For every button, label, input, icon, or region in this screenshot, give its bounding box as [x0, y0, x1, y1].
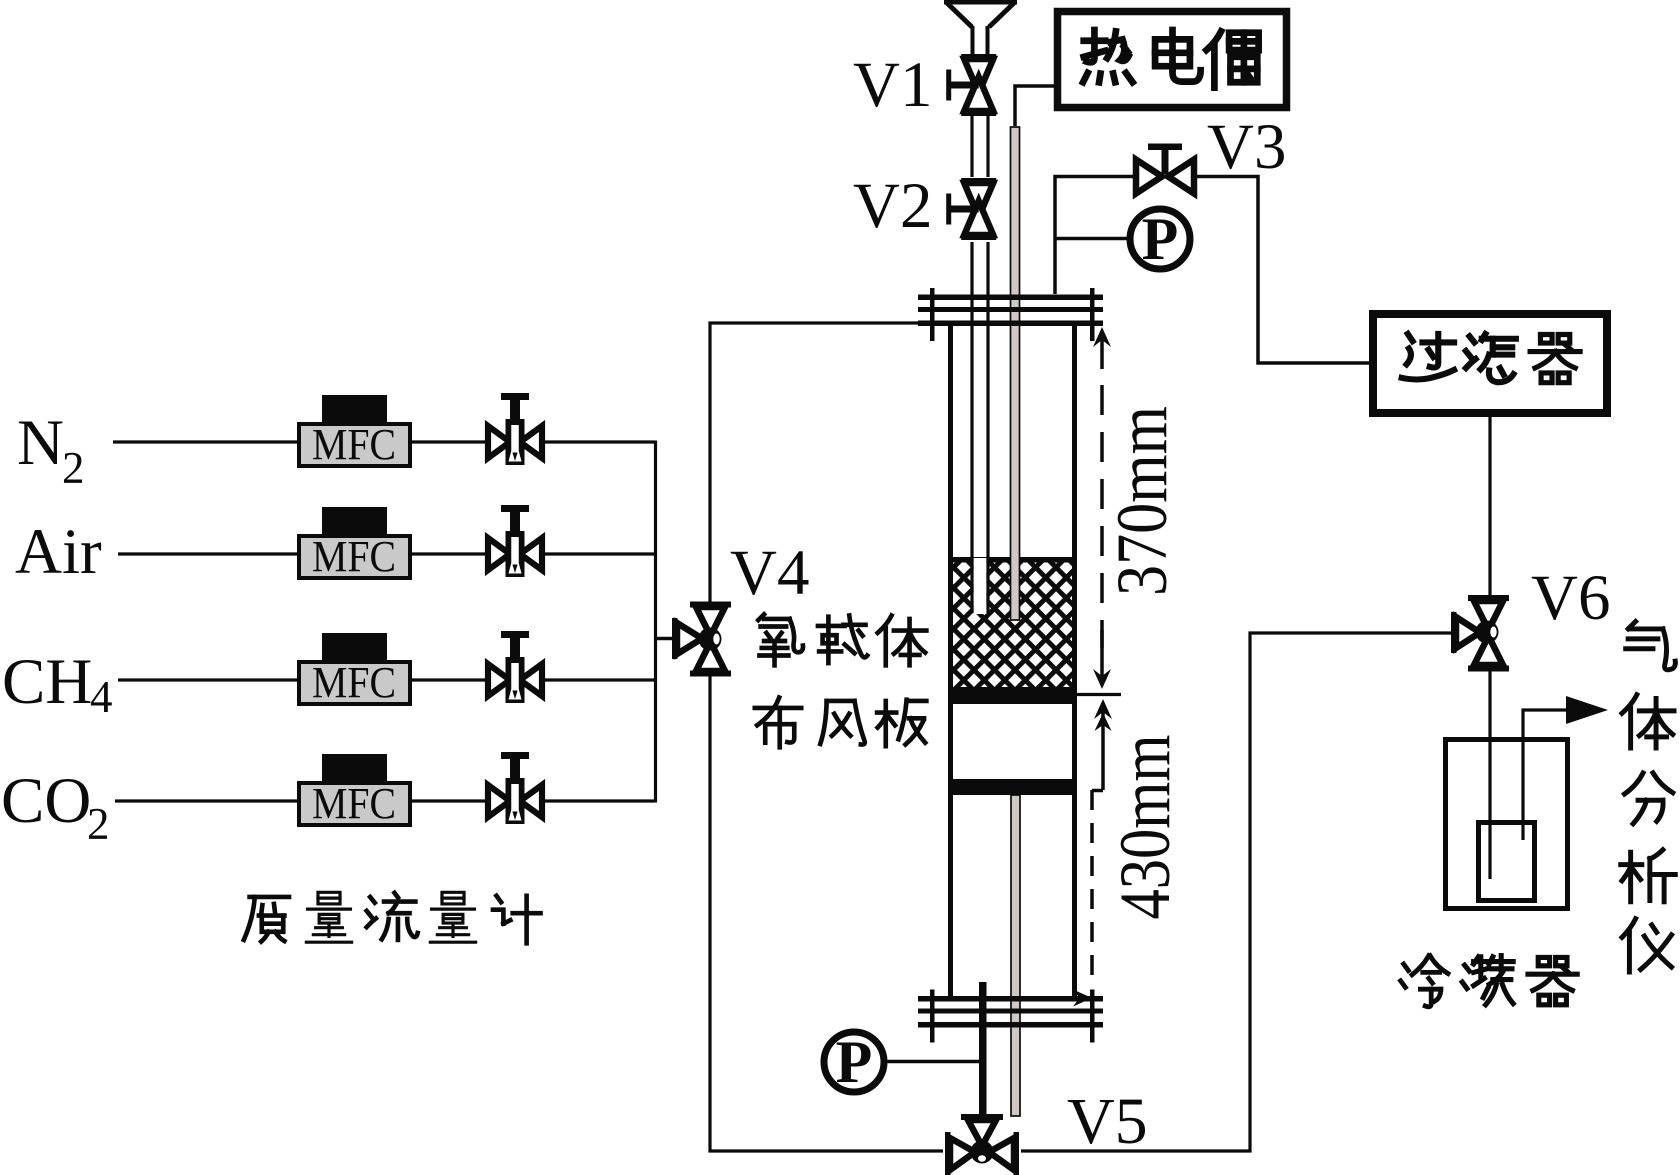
label CH4 — [2, 646, 113, 722]
dimension line 430mm — [1022, 699, 1112, 1007]
feed pipe inside reactor — [972, 242, 988, 614]
dimension line 370mm — [1093, 327, 1111, 689]
svg-text:MFC: MFC — [312, 532, 396, 581]
wire P bottom to drain tube — [884, 1060, 980, 1064]
svg-text:2: 2 — [87, 799, 110, 849]
wire N2 line — [113, 440, 655, 443]
svg-text:N: N — [17, 407, 64, 479]
wire tap to P gauge top — [1055, 237, 1127, 241]
svg-text:V5: V5 — [1067, 1085, 1148, 1158]
reactor wall left — [948, 326, 953, 996]
label CO2 — [1, 765, 110, 849]
MFC 2 (Air) — [299, 507, 410, 581]
thermocouple probe tube (lower) — [1011, 795, 1020, 1116]
valve V5 (3-way) — [945, 1114, 1019, 1175]
condenser outlet line with arrow — [1523, 696, 1608, 840]
condenser inner vessel — [1479, 820, 1535, 901]
thermocouple box 热电偶 — [1058, 12, 1287, 108]
wire Air line — [118, 552, 655, 555]
pipe V1-V2 — [972, 116, 988, 177]
svg-text:CO: CO — [1, 765, 91, 837]
valve CH4 gate — [488, 631, 542, 703]
wire gas manifold — [654, 441, 657, 803]
svg-text:4: 4 — [90, 672, 113, 722]
svg-text:V4: V4 — [730, 537, 809, 609]
valve V4 (3-way) — [672, 602, 731, 677]
valve V6 (3-way) — [1451, 595, 1509, 672]
label 氧载体 — [758, 614, 926, 665]
svg-text:MFC: MFC — [312, 420, 396, 469]
lower flange — [918, 990, 1103, 1043]
label 布风板 — [755, 697, 927, 747]
svg-text:MFC: MFC — [312, 779, 396, 828]
svg-text:370mm: 370mm — [1102, 406, 1182, 596]
svg-text:V1: V1 — [853, 49, 932, 121]
wire manifold to V4 — [655, 637, 674, 641]
MFC 3 (CH4) — [299, 633, 410, 707]
dimension tick at distributor — [1072, 693, 1121, 696]
valve V1 — [946, 54, 996, 116]
thermocouple probe tube (upper) — [1011, 127, 1020, 620]
reactor lower band — [948, 779, 1077, 795]
svg-text:CH: CH — [2, 646, 92, 718]
MFC 4 (CO2) — [299, 754, 410, 828]
wire CH4 line — [118, 678, 655, 681]
valve N2 gate — [488, 393, 542, 465]
wire V6 to condenser — [1488, 671, 1491, 740]
svg-text:430mm: 430mm — [1105, 735, 1185, 920]
svg-text:2: 2 — [62, 443, 85, 493]
svg-text:V6: V6 — [1531, 562, 1610, 634]
wire bottom loop to right riser — [1021, 633, 1451, 1151]
condenser inner top edge — [1479, 820, 1535, 825]
label 质量流量计 — [244, 892, 541, 943]
svg-text:V3: V3 — [1207, 111, 1286, 183]
reactor distributor plate band — [948, 687, 1077, 704]
label N2 — [17, 407, 85, 493]
filter box 过滤器 — [1373, 314, 1607, 413]
svg-text:V2: V2 — [853, 170, 932, 242]
funnel — [944, 0, 1017, 54]
wire thermocouple box to probe — [1015, 86, 1054, 126]
reactor oxygen-carrier bed (crosshatch) — [948, 557, 1077, 688]
valve V3 — [1136, 144, 1194, 194]
svg-text:Air: Air — [15, 516, 102, 588]
valve V2 — [946, 178, 996, 240]
wire flange tap riser — [1055, 177, 1133, 295]
condenser outer vessel — [1446, 740, 1568, 909]
MFC 1 (N2) — [299, 395, 410, 469]
wire CO2 line — [115, 799, 655, 802]
label 冷凝器 — [1401, 956, 1578, 1007]
wire V4 up to reactor top — [710, 323, 918, 602]
valve Air gate — [488, 505, 542, 577]
drain tube to V5 — [979, 982, 987, 1116]
pressure gauge P (top) — [1130, 206, 1190, 272]
condenser inlet dip tube — [1488, 740, 1491, 879]
wire V4 down to bottom loop — [710, 676, 943, 1151]
reactor wall right — [1072, 326, 1077, 996]
label 气体分析仪 (vertical) — [1621, 621, 1676, 972]
upper flange — [918, 288, 1103, 341]
valve CO2 gate — [488, 752, 542, 824]
svg-text:MFC: MFC — [312, 658, 396, 707]
wire filter to V6 — [1488, 417, 1491, 597]
label Air — [15, 516, 102, 588]
wire V3 to filter — [1197, 177, 1369, 364]
pressure gauge P (bottom) — [824, 1029, 884, 1095]
